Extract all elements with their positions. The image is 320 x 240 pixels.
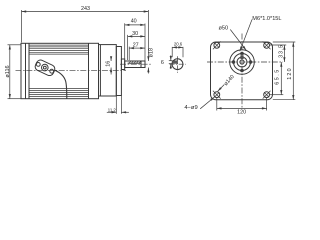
svg-text:16: 16	[106, 61, 112, 67]
svg-text:27: 27	[133, 43, 139, 49]
svg-text:40: 40	[131, 18, 137, 24]
svg-text:ø140: ø140	[223, 74, 236, 87]
svg-text:120: 120	[237, 110, 246, 116]
svg-text:120: 120	[287, 67, 293, 80]
svg-text:33.5: 33.5	[279, 44, 285, 58]
svg-text:ø50: ø50	[218, 26, 228, 32]
svg-text:30: 30	[132, 31, 138, 37]
svg-text:6: 6	[161, 60, 164, 66]
svg-text:ø18: ø18	[149, 48, 155, 57]
svg-text:243: 243	[81, 6, 90, 12]
svg-text:ø116: ø116	[5, 65, 11, 77]
svg-text:65.5: 65.5	[274, 68, 280, 85]
svg-text:20.6: 20.6	[174, 42, 183, 47]
svg-text:4−ø9: 4−ø9	[184, 105, 197, 111]
svg-text:11.2: 11.2	[108, 107, 117, 112]
svg-text:M6*1.0*15L: M6*1.0*15L	[252, 16, 281, 22]
